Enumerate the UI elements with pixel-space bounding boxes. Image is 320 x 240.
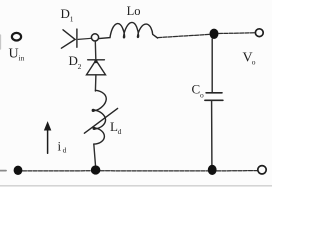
svg-text:2: 2 [78,62,82,71]
svg-text:o: o [252,58,256,67]
arrow i_d [45,123,51,154]
wire D2 to Ld [94,75,97,91]
terminal Vo (open circle) [255,29,263,37]
junction dot (top) [210,29,219,39]
label D2 [69,53,82,71]
svg-text:D: D [69,53,78,68]
bottom rail [23,170,92,172]
diode D2 [87,60,106,75]
label U_in [9,47,25,63]
svg-text:d: d [118,127,122,136]
label D1 [61,6,74,23]
wire junction to output terminal [219,32,255,35]
scan artifact: left edge mark top [0,35,2,49]
wire D1 to node [78,38,91,39]
svg-text:U: U [9,47,19,62]
wire [100,170,207,172]
junction dot (bottom, Ld) [91,165,101,174]
svg-text:o: o [200,90,204,99]
svg-text:D: D [61,6,70,21]
wire [217,170,258,172]
terminal U_in [12,33,21,41]
inductor Ld (saturable, vertical squiggle) [93,90,107,144]
label V_o [243,51,256,67]
terminal dot bottom-left [14,166,23,175]
node (open circle) [91,34,98,41]
knot loops on Ld [92,109,95,112]
svg-text:d: d [63,146,67,155]
scan artifact: left edge nub at rail [0,170,6,172]
inductor Lo [99,22,158,38]
diode D1 [61,29,77,48]
capacitor Co top lead [211,39,213,92]
svg-text:i: i [58,138,62,153]
capacitor Co bottom lead [211,101,213,165]
svg-text:in: in [19,54,25,63]
label L_d [110,119,122,136]
svg-text:C: C [192,82,201,97]
junction dot (bottom, Co) [208,165,217,175]
wire Ld to bottom junction [94,144,96,165]
capacitor Co plates [205,93,223,101]
label C_o [192,82,205,100]
terminal bottom-right (open circle) [258,166,266,174]
slash through Ld [84,108,117,133]
scan artifact: bottom edge faint line [0,185,272,187]
wire Lo to top junction [158,34,210,37]
svg-text:1: 1 [70,15,74,24]
label i_d [58,138,67,154]
label Lo [127,4,141,18]
svg-text:Lo: Lo [127,4,141,18]
wire node to D2 [94,41,97,59]
